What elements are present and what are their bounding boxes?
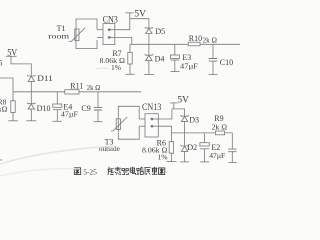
svg-text:D10: D10: [37, 103, 51, 113]
svg-text:47µF: 47µF: [209, 151, 225, 160]
ground under right cap: [228, 161, 236, 163]
wire CN3 pin1 to 5V line: [115, 13, 130, 30]
ground under R7: [126, 73, 135, 75]
diode D11: [27, 75, 35, 81]
svg-text:kΩ: kΩ: [0, 105, 7, 114]
svg-text:5V: 5V: [134, 9, 146, 19]
svg-text:5: 5: [0, 59, 2, 68]
diode D3: [181, 115, 189, 121]
node rail bottom channel: [171, 132, 232, 134]
svg-text:D11: D11: [37, 73, 53, 83]
caption text: sensor circuit schematic (8 hanzi): [108, 167, 165, 175]
5V supply (left) underline: [6, 55, 17, 57]
svg-text:D5: D5: [155, 27, 165, 36]
ground under D10: [26, 120, 36, 122]
capacitor C right: [228, 133, 236, 163]
sensor box T1: [76, 19, 97, 49]
svg-text:R11: R11: [70, 81, 83, 90]
ground under D4: [144, 74, 154, 76]
5V supply bar (top): [125, 12, 133, 14]
node rail left channel: [13, 91, 141, 93]
5V supply bar (bottom): [170, 102, 177, 104]
svg-text:CN13: CN13: [142, 102, 162, 112]
ground under E2: [200, 161, 209, 163]
wire D11 to rail: [30, 82, 32, 92]
thermistor T3 arrow: [111, 117, 127, 131]
wire 5V to D11: [11, 56, 31, 76]
ground under C10: [209, 74, 218, 76]
resistor R11: [65, 90, 79, 94]
node rail top channel: [130, 43, 240, 45]
svg-text:C10: C10: [220, 58, 233, 67]
ground under C9: [94, 121, 103, 123]
svg-text:C9: C9: [81, 104, 90, 113]
caption figure number 5-25: [74, 168, 80, 175]
svg-text:1%: 1%: [111, 63, 121, 72]
connector CN13 box: [145, 114, 158, 137]
wire box to CN3 pin1: [97, 29, 103, 31]
resistor R9: [215, 131, 224, 135]
ground under E4: [52, 120, 61, 122]
diode D2: [181, 133, 189, 162]
svg-text:2k Ω: 2k Ω: [212, 122, 228, 131]
wire CN13 pin1 to 5V line: [158, 109, 172, 119]
ground under D2: [180, 161, 189, 163]
svg-text:D2: D2: [187, 143, 197, 152]
capacitor E3: [170, 44, 179, 71]
svg-text:room: room: [48, 31, 69, 40]
thermistor T3 body: [116, 119, 120, 130]
svg-text:5-25: 5-25: [83, 167, 97, 176]
sensor box T3: [118, 106, 139, 139]
diode D5: [145, 27, 153, 33]
resistor R6: [169, 133, 173, 162]
CN13 pin 2: [151, 125, 158, 127]
svg-text:D4: D4: [155, 54, 165, 63]
svg-text:5V: 5V: [7, 48, 17, 58]
svg-text:2k Ω: 2k Ω: [203, 36, 218, 45]
wire entering from left edge: [0, 78, 13, 92]
capacitor E2: [200, 133, 209, 162]
ground under R6: [167, 161, 177, 163]
resistor R7: [128, 44, 132, 74]
svg-text:outside: outside: [99, 144, 121, 153]
wire D5 to node rail: [148, 34, 150, 45]
wire box to CN3 pin2: [97, 36, 103, 38]
svg-text:D3: D3: [189, 116, 199, 125]
ground under R8: [8, 120, 18, 122]
svg-text:R10: R10: [189, 34, 202, 43]
capacitor C9: [94, 92, 102, 122]
svg-text:2k Ω: 2k Ω: [87, 83, 101, 92]
CN13 pin 1: [151, 118, 158, 120]
wire 5V line to D3: [172, 109, 185, 116]
thermistor T1 body: [75, 29, 79, 41]
wire D3 to node rail: [184, 122, 186, 133]
5V stem (bottom): [173, 103, 175, 109]
wire 5V to D5: [130, 19, 149, 28]
CN3 pin 1: [108, 29, 115, 31]
capacitor C10: [209, 44, 217, 74]
wire CN13 pin2 to node rail: [158, 126, 171, 133]
wire T3 box to CN13 pin2: [139, 125, 145, 127]
CN3 pin 2: [108, 36, 115, 38]
wire CN3 pin2 to node rail: [115, 37, 132, 44]
capacitor E4: [53, 92, 62, 122]
svg-text:1%: 1%: [158, 153, 168, 162]
thermistor T1 arrow: [69, 28, 85, 42]
diode D10: [27, 92, 35, 121]
connector CN3 box: [103, 24, 115, 45]
svg-text:CN3: CN3: [103, 15, 119, 25]
ground under E3: [170, 71, 179, 73]
svg-text:47µF: 47µF: [61, 110, 78, 119]
wire T3 box to CN13 pin1: [139, 118, 145, 120]
svg-text:47µF: 47µF: [180, 61, 198, 70]
diode D4: [145, 44, 153, 74]
resistor R8: [11, 92, 15, 121]
resistor R10: [188, 42, 200, 46]
svg-text:5V: 5V: [177, 95, 189, 105]
